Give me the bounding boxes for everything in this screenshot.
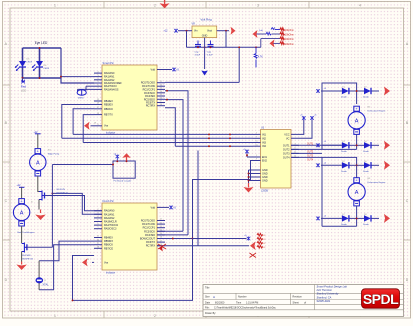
svg-text:2: 2 <box>154 314 156 318</box>
power arrow MCLR U1 <box>91 125 95 127</box>
svg-text:LED8: LED8 <box>44 68 50 70</box>
wire IN2 <box>62 137 253 139</box>
power arrow row2 <box>253 30 258 38</box>
wire motor to bottom diode row lower <box>356 206 358 227</box>
wire RB5 loop left <box>62 105 94 139</box>
power arrow RC7 <box>250 241 256 250</box>
svg-text:4.7K: 4.7K <box>258 57 263 59</box>
diode D5b <box>342 162 349 168</box>
node rail junction R5 <box>255 46 257 48</box>
svg-text:3.3uF: 3.3uF <box>207 55 213 57</box>
wire LED box right edge to RA pin <box>61 48 94 83</box>
svg-text:RC1/T1OSI: RC1/T1OSI <box>142 223 155 226</box>
svg-text:RC2/CCP1: RC2/CCP1 <box>143 227 156 230</box>
wire RC7 to IN4 bus <box>165 108 175 147</box>
power port +5 VCC <box>302 116 306 120</box>
diode D6b <box>364 162 371 168</box>
svg-text:94305-4021: 94305-4021 <box>317 299 331 303</box>
wire Q2 gate <box>27 246 53 248</box>
svg-text:Diode: Diode <box>363 97 369 99</box>
svg-text:Size: Size <box>205 296 210 299</box>
wire bracket lower motor <box>321 157 323 226</box>
svg-text:BOW/C2OUT: BOW/C2OUT <box>140 238 156 241</box>
net markers red stack <box>257 233 263 236</box>
svg-text:10kOhm: 10kOhm <box>285 29 294 32</box>
motor B1 Bilge Pump <box>35 149 41 154</box>
svg-text:10kOhm: 10kOhm <box>285 34 294 37</box>
node lower diode junction <box>356 164 358 166</box>
svg-text:RC6/TX: RC6/TX <box>146 241 155 244</box>
voltage regulator VR box <box>192 26 217 38</box>
svg-text:8/2/2000: 8/2/2000 <box>215 301 225 304</box>
svg-text:Diode: Diode <box>363 151 369 153</box>
power port +5 VC <box>310 116 314 120</box>
diode D1 <box>342 88 349 94</box>
wire row3 <box>261 38 280 40</box>
svg-text:Diode: Diode <box>341 224 347 226</box>
wire row4 <box>274 42 281 44</box>
wire +12 to B1 <box>37 134 39 148</box>
net label Red LED <box>21 80 25 84</box>
power port +5 EN1 <box>247 156 253 158</box>
diode D2 <box>364 88 371 94</box>
ground arrow Q1 <box>35 215 46 221</box>
svg-text:RC0/T1OSO: RC0/T1OSO <box>141 220 155 223</box>
node upper diode junction 2 <box>356 144 358 146</box>
wire RC5 +5 wire <box>157 238 193 240</box>
wire OUT4 <box>291 156 299 158</box>
power arrow lower row <box>384 161 390 170</box>
wire RA1 from bus <box>52 193 102 214</box>
svg-text:BaitsTruckEngine: BaitsTruckEngine <box>17 231 35 234</box>
diode D4 <box>364 142 371 148</box>
svg-text:Indicator: Indicator <box>106 272 115 275</box>
svg-text:RA1/AN1: RA1/AN1 <box>104 213 115 216</box>
wire VCC +5 <box>291 120 304 135</box>
power arrow coupler +12 <box>122 153 131 158</box>
wire U1 Vdd to +5 <box>157 69 172 71</box>
capacitor C2 <box>210 41 212 45</box>
svg-text:IN3: IN3 <box>262 142 267 145</box>
svg-text:File:: File: <box>205 306 210 309</box>
motor driver U3 L293B box <box>261 130 292 189</box>
svg-text:IN1: IN1 <box>262 133 267 136</box>
svg-text:VR: VR <box>192 22 196 25</box>
diode D8 <box>364 215 371 221</box>
power arrow upper row <box>384 87 390 96</box>
wire RC2 down bus <box>165 91 188 235</box>
svg-text:Drawn By:: Drawn By: <box>205 312 216 315</box>
power arrow +12 top <box>164 0 166 8</box>
svg-text:RB7/CE: RB7/CE <box>104 247 113 250</box>
pin stubs U2 left <box>94 210 102 212</box>
svg-text:RB6/CK: RB6/CK <box>104 244 113 247</box>
pin stubs U3 left <box>253 133 261 135</box>
red marker near RC6 <box>158 244 166 249</box>
svg-text:A: A <box>20 210 24 216</box>
connector J1 Pin Board Coupler box <box>113 161 135 178</box>
svg-text:Stanford, CA: Stanford, CA <box>317 295 332 299</box>
wire crystal top lead <box>38 261 40 278</box>
svg-text:2: 2 <box>154 3 156 7</box>
motor B3 Defecation Engine <box>354 178 360 183</box>
wire motor to bottom diode row <box>356 134 358 149</box>
svg-text:OUT4: OUT4 <box>283 157 290 160</box>
svg-text:C:\TeamNikko\ME218\OOCDschemat: C:\TeamNikko\ME218\OOCDschematic4TrackBo… <box>214 306 277 309</box>
wire LED box <box>23 47 62 49</box>
svg-text:Sheet: Sheet <box>293 301 300 304</box>
power port +5 coupler <box>116 155 120 159</box>
power arrow row4 <box>270 39 275 47</box>
wire RC0 to pull-ups <box>165 81 239 83</box>
wire OUT3 <box>291 152 299 154</box>
svg-text:VCC: VCC <box>284 134 289 137</box>
power arrow lower row 2 <box>384 214 390 223</box>
svg-text:Time: Time <box>236 301 242 304</box>
svg-text:Title: Title <box>205 287 210 290</box>
transistor Q1 IRLZ24V <box>39 191 44 201</box>
svg-text:of: of <box>304 301 306 304</box>
transistor Q2 IRLZ34N <box>22 243 27 253</box>
svg-text:GND: GND <box>202 35 208 38</box>
power port +5 U2 <box>169 205 173 209</box>
svg-text:Smart Pic: Smart Pic <box>103 61 115 65</box>
LED D6 <box>36 61 43 67</box>
resistor R4 10k <box>280 42 285 45</box>
svg-text:RB4/EX: RB4/EX <box>104 237 113 240</box>
svg-text:1: 1 <box>54 314 56 318</box>
svg-text:Diode: Diode <box>341 151 347 153</box>
power port +5 U1 <box>172 68 176 72</box>
wire GND pins <box>249 169 261 171</box>
wire bracket bottom upper <box>322 148 357 150</box>
svg-text:IRLZ34N: IRLZ34N <box>22 255 31 257</box>
svg-text:A: A <box>355 190 359 196</box>
svg-text:Vdd: Vdd <box>151 206 156 209</box>
svg-text:RC3/SCK: RC3/SCK <box>144 230 155 233</box>
diode D3 <box>342 142 349 148</box>
svg-text:1uF: 1uF <box>259 30 263 32</box>
svg-text:RB5/RX: RB5/RX <box>104 240 113 243</box>
svg-text:RB6/CK: RB6/CK <box>104 108 113 111</box>
wire Vout cap branch <box>225 31 227 48</box>
ground arrow U3 <box>244 187 254 193</box>
svg-text:1: 1 <box>54 3 56 7</box>
svg-text:3.3uF: 3.3uF <box>195 55 201 57</box>
wire RC4 bend from bus <box>157 234 188 236</box>
wire VC +5 <box>291 120 312 139</box>
svg-text:Volt Reg: Volt Reg <box>200 17 212 21</box>
svg-text:241 Thornton: 241 Thornton <box>316 288 333 292</box>
wire RC5 down bus <box>165 100 183 232</box>
svg-text:Defecation Engine: Defecation Engine <box>368 181 387 184</box>
wire ground rail under regulator <box>187 46 261 48</box>
wire Q1 gate <box>45 195 49 197</box>
svg-text:EN2: EN2 <box>262 160 267 163</box>
node bus junction dots <box>208 133 210 135</box>
svg-text:Smart Product Design Lab: Smart Product Design Lab <box>317 284 348 288</box>
LED D5 <box>19 61 26 67</box>
wire diode row top upper <box>321 90 342 92</box>
svg-text:GND: GND <box>262 180 268 183</box>
wire B4 to Q2 <box>21 226 23 243</box>
wire IN1 <box>73 133 252 135</box>
svg-text:OUT3: OUT3 <box>283 152 290 155</box>
svg-text:4MHz: 4MHz <box>78 98 84 100</box>
wire RB5 to crystal <box>39 241 94 261</box>
wire vertical to resistor rail <box>238 47 240 82</box>
wire RA1 to LED box <box>61 76 94 78</box>
op-amp U2 Dumb Pic PIC16F876 box <box>102 203 157 270</box>
svg-text:OUT1: OUT1 <box>307 143 314 145</box>
wire RA0 from MOSFET gate bus <box>48 196 102 211</box>
svg-text:MOSFET-N: MOSFET-N <box>57 192 69 194</box>
diode D7 <box>342 215 349 221</box>
node lower diode junction 2 <box>356 217 358 219</box>
svg-text:IRLZ24V: IRLZ24V <box>57 189 66 191</box>
ground arrow blue <box>201 71 208 76</box>
wire +12 to Vin <box>178 30 192 32</box>
svg-text:RC7/RX: RC7/RX <box>146 245 156 248</box>
wire row3 corner to rail <box>260 39 262 48</box>
svg-text:RA5/OSC3: RA5/OSC3 <box>104 228 117 231</box>
svg-text:RB7/TX: RB7/TX <box>104 114 113 117</box>
svg-text:Vin: Vin <box>194 29 198 32</box>
svg-text:Vdd: Vdd <box>151 69 156 72</box>
wire OUT2 <box>291 148 299 150</box>
wire IN3 <box>83 142 252 144</box>
svg-text:1:31:04 PM: 1:31:04 PM <box>246 301 258 304</box>
svg-text:OUT4: OUT4 <box>307 160 314 162</box>
svg-text:OUT1: OUT1 <box>283 144 290 147</box>
svg-text:LED: LED <box>21 88 26 92</box>
resistor blue row2 <box>266 32 271 35</box>
wire diode row bottom upper <box>322 144 342 146</box>
wire diode row bottom lower <box>321 217 342 219</box>
wire Q2 gate riser <box>51 165 53 248</box>
power arrow upper row 2 <box>384 141 390 150</box>
svg-text:Dumb Pic: Dumb Pic <box>103 199 115 203</box>
svg-text:Diode: Diode <box>363 171 369 173</box>
power port +5 row <box>316 89 320 93</box>
svg-text:VC: VC <box>286 138 290 141</box>
svg-text:Defecation Engine: Defecation Engine <box>368 110 387 113</box>
wire regulator GND to ground <box>204 38 206 69</box>
svg-text:OUT2: OUT2 <box>283 148 290 151</box>
svg-text:LED8: LED8 <box>27 62 33 64</box>
svg-text:Vout: Vout <box>207 29 212 32</box>
svg-text:10kOhm: 10kOhm <box>285 38 294 41</box>
node upper diode junction <box>356 90 358 92</box>
wire motor top lower <box>356 165 358 178</box>
svg-text:Diode: Diode <box>341 97 347 99</box>
resistor R5 4.7K vertical <box>255 47 257 53</box>
node cap junctions <box>197 46 199 48</box>
svg-text:L293B: L293B <box>261 190 268 193</box>
resistor R2 10k <box>280 32 285 35</box>
svg-text:Pin Board Coupler: Pin Board Coupler <box>114 179 132 182</box>
svg-text:Diode: Diode <box>363 224 369 226</box>
red marker stack 2 <box>250 253 257 258</box>
op-amp U1 Smart Pic PIC16F876 box <box>102 65 157 130</box>
wire bracket bottom lower <box>322 225 357 227</box>
motor B4 BaitsTruckEngine <box>19 199 25 204</box>
svg-text:SPDL: SPDL <box>363 291 399 307</box>
wire LED box bottom stub <box>22 78 24 81</box>
wire diode row top lower <box>321 164 342 166</box>
wire U2 Vdd to +5 <box>157 206 169 208</box>
wire RB6 loop left <box>73 109 94 135</box>
wire Q1 source to ground <box>38 200 40 210</box>
wire RB6 to crystal <box>39 245 94 290</box>
svg-text:IN2: IN2 <box>262 137 267 140</box>
pin stubs U2 right <box>157 220 165 222</box>
wire U2 pin to big loop <box>73 239 193 301</box>
power port +5 RC5 <box>247 237 251 241</box>
power arrow +5 Vout <box>231 27 236 35</box>
wire crystal bottom lead <box>38 283 40 290</box>
svg-text:RA2/AN2: RA2/AN2 <box>104 217 115 220</box>
svg-text:MOSFET-N: MOSFET-N <box>22 259 34 261</box>
wire Vout <box>217 30 229 32</box>
resistor R3 10k <box>280 37 285 40</box>
svg-text:Revision: Revision <box>293 296 303 299</box>
svg-text:A: A <box>36 160 40 166</box>
svg-text:Diode: Diode <box>341 171 347 173</box>
svg-text:4: 4 <box>359 3 361 7</box>
crystal Y1 <box>36 278 43 283</box>
svg-text:RA4/T0CKI2: RA4/T0CKI2 <box>104 224 119 227</box>
svg-text:IN4: IN4 <box>262 145 267 148</box>
title block <box>203 285 404 317</box>
pin stubs U1 right <box>157 82 165 84</box>
svg-text:Eye LED: Eye LED <box>35 41 48 45</box>
svg-text:Date: Date <box>205 301 211 304</box>
wire B1 to Q1 <box>38 176 42 192</box>
motor B2 Defecation Engine <box>354 106 360 111</box>
svg-text:Stanford University: Stanford University <box>317 292 340 296</box>
wire EN2 to bus <box>253 160 261 162</box>
svg-text:10kOhm: 10kOhm <box>285 43 294 46</box>
power arrow U2 Vss <box>92 261 94 263</box>
wire Vin cap branch <box>186 31 188 48</box>
pin stubs U1 left <box>94 72 102 74</box>
svg-text:XTAL: XTAL <box>42 283 49 287</box>
wire OUT1 <box>291 144 299 146</box>
svg-text:RA0/AN0: RA0/AN0 <box>104 210 115 213</box>
wire IN4 <box>175 145 252 147</box>
wire coupler left <box>52 164 113 166</box>
resonator Y2 <box>86 85 94 87</box>
ground arrow Q2 <box>16 265 27 271</box>
svg-text:3: 3 <box>257 3 259 7</box>
svg-text:Number: Number <box>238 296 247 299</box>
svg-text:A: A <box>213 295 215 299</box>
svg-text:RC7/RX: RC7/RX <box>146 105 156 108</box>
wire RC7 row <box>157 245 198 247</box>
wire +12 to B4 <box>21 187 23 198</box>
resistor R1 10k <box>280 28 285 31</box>
svg-text:RC4/SDI: RC4/SDI <box>145 234 155 237</box>
svg-text:Bilge Pump: Bilge Pump <box>48 154 60 156</box>
wire row2 <box>257 33 267 35</box>
wire Q2 source to ground <box>21 252 23 262</box>
svg-text:RA5/AN4/SS: RA5/AN4/SS <box>104 88 119 91</box>
svg-text:A: A <box>355 118 359 124</box>
wire RB7 loop left <box>83 115 94 143</box>
svg-text:RA3/MCLR: RA3/MCLR <box>104 221 117 224</box>
wire bracket upper motor <box>322 83 357 149</box>
node junctions LED box <box>39 47 41 49</box>
capacitor C1 <box>197 41 199 45</box>
svg-text:RB5/EX: RB5/EX <box>104 104 113 107</box>
wire RC3 bend from bus <box>157 230 183 232</box>
